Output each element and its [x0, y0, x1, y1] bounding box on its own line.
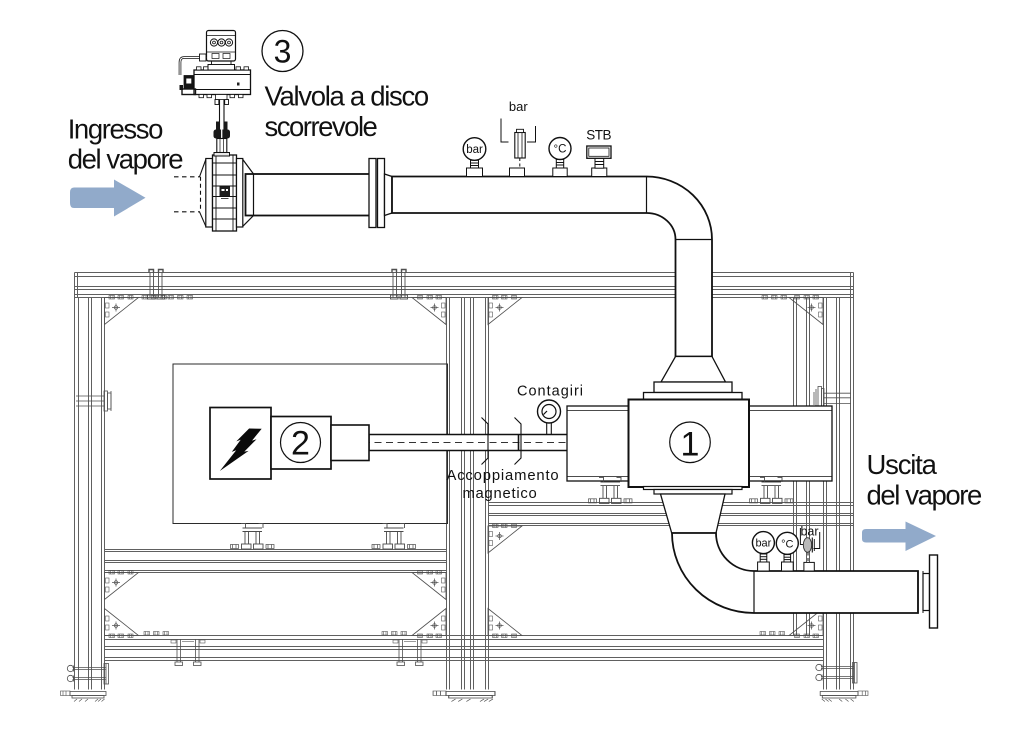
gusset under right mid rail at center-right post	[488, 524, 522, 553]
svg-text:Ingresso: Ingresso	[68, 113, 163, 144]
svg-text:bar: bar	[466, 144, 483, 156]
circle 1	[670, 422, 711, 463]
bolt strip top rail left	[142, 296, 167, 300]
Contagiri gauge	[538, 400, 561, 423]
motor label box 2	[271, 417, 331, 470]
motor foot left	[231, 524, 275, 550]
bonnet base plate	[214, 153, 230, 157]
motor enclosure box	[173, 364, 448, 524]
svg-text:scorrevole: scorrevole	[265, 111, 378, 142]
gauge bar 1 stem	[467, 160, 483, 176]
solenoid	[184, 76, 194, 90]
bolt strip top rail right	[762, 296, 787, 300]
outlet arrow	[862, 522, 936, 552]
stem nut blocks	[216, 122, 220, 130]
center-left post	[447, 298, 465, 690]
center-right post	[471, 298, 489, 690]
reducer after flange	[385, 174, 393, 216]
inlet adapter plate	[644, 393, 743, 400]
conduit	[180, 58, 207, 76]
valve outlet cone	[243, 160, 254, 227]
turbine foot right	[750, 477, 794, 503]
actuator body	[194, 70, 251, 95]
gusset under left mid rail at center-left post	[412, 571, 446, 600]
bolt strip bottom rail right	[760, 632, 785, 636]
actuator stem	[219, 97, 221, 130]
inlet cone to turbine	[661, 357, 726, 383]
foot center posts	[433, 691, 495, 702]
svg-text:Accoppiamento: Accoppiamento	[446, 468, 559, 484]
outlet weld line	[917, 571, 919, 613]
svg-text:bar: bar	[800, 525, 818, 539]
right outer post	[824, 298, 854, 690]
frame top rail	[75, 273, 854, 298]
outlet neck	[923, 574, 930, 611]
inlet dashed flange edge	[200, 177, 202, 212]
STB box	[587, 146, 611, 158]
outlet transmitter bracket	[800, 528, 804, 545]
inlet flange ring	[654, 382, 732, 393]
body bottom bolts	[199, 95, 243, 100]
elbow seam start	[646, 177, 648, 214]
bottom rail	[105, 636, 824, 661]
inlet dashed hidden pipe top	[174, 176, 200, 178]
gusset under top rail left of center-left post	[412, 296, 446, 325]
outlet flange ring	[654, 490, 732, 495]
svg-text:Uscita: Uscita	[867, 449, 938, 480]
STB stem	[592, 158, 607, 176]
svg-text:Contagiri: Contagiri	[517, 383, 584, 399]
right inner post	[794, 298, 810, 636]
svg-text:bar: bar	[509, 99, 528, 114]
gauge bar 1	[463, 138, 486, 161]
actuator neck	[208, 65, 235, 71]
inlet arrow	[70, 180, 146, 217]
gusset under top rail left of right post	[789, 296, 823, 325]
outlet cone	[661, 494, 726, 533]
valve left flange	[206, 159, 213, 228]
bracket under bottom rail B	[393, 639, 427, 666]
coupling joint line	[518, 435, 520, 451]
bonnet tube	[217, 139, 227, 153]
outlet gauge bar	[752, 532, 774, 554]
coupling brace left	[482, 418, 489, 465]
gauge C	[549, 138, 571, 160]
main pipe run with elbow down	[392, 177, 712, 357]
foot right post	[820, 691, 868, 702]
motor coupling housing	[331, 425, 369, 461]
clamp on top rail B	[391, 270, 408, 300]
left post	[75, 298, 105, 690]
outlet elbow and pipe	[672, 533, 918, 613]
svg-text:°C: °C	[781, 539, 793, 551]
mid rail right bay	[488, 503, 854, 526]
stub bracket on right post	[814, 387, 851, 411]
svg-text:1: 1	[681, 426, 700, 464]
turbine foot left	[589, 477, 633, 503]
bolt strip bottom rail center	[382, 632, 407, 636]
gusset above bottom rail at center-left post	[412, 609, 446, 638]
inlet dashed hidden pipe bottom	[174, 211, 200, 213]
coupling brace right	[515, 418, 522, 465]
bolt strip bottom rail left	[144, 632, 169, 636]
INSTRUMENTS outlet pipe	[752, 528, 819, 571]
clamp on top rail A	[148, 270, 165, 300]
gusset top-left under top rail	[105, 296, 139, 325]
inlet flare top	[200, 160, 206, 177]
stem coupling dark	[214, 130, 231, 139]
svg-text:del vapore: del vapore	[867, 479, 983, 510]
outlet transmitter body	[803, 538, 811, 553]
outlet end flange	[930, 555, 938, 628]
outlet adapter plate	[644, 487, 743, 490]
transmitter bar sensor	[515, 133, 525, 159]
valve body	[213, 155, 237, 231]
stem top side hooks	[215, 100, 219, 105]
motor foot right	[372, 524, 416, 550]
gusset above bottom rail at right post	[789, 609, 823, 638]
svg-text:del vapore: del vapore	[68, 143, 184, 174]
connection box	[207, 31, 236, 62]
turbine core	[629, 400, 750, 488]
lightning bolt	[220, 429, 262, 472]
svg-text:magnetico: magnetico	[462, 486, 537, 502]
svg-text:°C: °C	[554, 144, 567, 156]
foot left post	[61, 691, 107, 702]
circle 3	[262, 31, 303, 72]
top pipe from valve to flange	[246, 174, 373, 216]
svg-text:STB: STB	[586, 128, 611, 143]
inlet flare bottom	[200, 212, 206, 227]
transmitter bar bracket	[501, 119, 509, 143]
stub beam on left post	[76, 391, 111, 411]
INSTRUMENTS top pipe	[463, 119, 611, 177]
svg-text:3: 3	[274, 34, 292, 70]
outlet elbow seam	[753, 571, 755, 613]
shaft	[369, 435, 569, 451]
svg-text:Valvola a disco: Valvola a disco	[265, 80, 429, 111]
gusset under top rail right of center-right post	[488, 296, 522, 325]
outlet gauge C	[776, 532, 798, 554]
gusset under left mid rail at left post	[105, 571, 139, 600]
bracket under bottom rail A	[171, 639, 205, 666]
elbow seam end	[676, 239, 713, 241]
mid rail left bay	[105, 550, 447, 573]
splice on right post bottom	[816, 663, 857, 684]
turbine outer casing	[567, 406, 832, 481]
gusset above bottom rail at left post	[105, 609, 139, 638]
outlet gauge C stem	[782, 555, 794, 571]
shaft centerline	[340, 442, 567, 444]
gauge C stem	[553, 160, 567, 177]
pipe flange pair mid	[369, 159, 376, 228]
VALVE ACTUATOR	[180, 31, 251, 157]
gusset above bottom rail at center-right post	[488, 609, 522, 638]
valve right flange	[237, 159, 243, 228]
body top bolts	[197, 67, 249, 70]
Contagiri gauge stem	[547, 423, 552, 435]
motor box	[210, 408, 271, 480]
svg-text:bar: bar	[755, 538, 771, 550]
circle 2	[281, 423, 321, 463]
svg-text:2: 2	[291, 425, 310, 463]
valve logo plate	[220, 187, 231, 197]
outlet gauge bar stem	[758, 554, 770, 571]
splice on left post bottom	[67, 664, 108, 685]
